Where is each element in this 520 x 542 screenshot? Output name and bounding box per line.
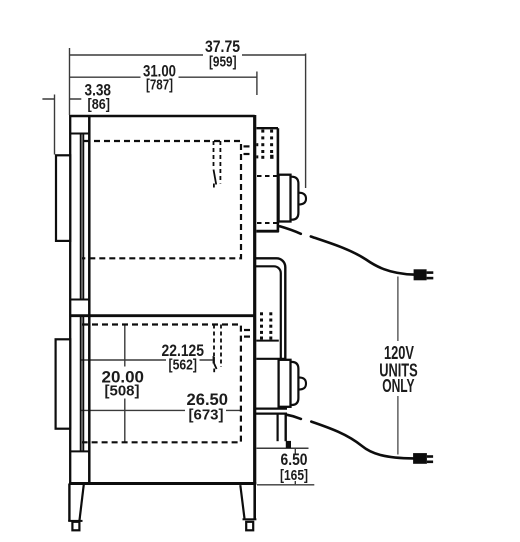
svg-text:[86]: [86] (88, 97, 111, 113)
svg-text:[508]: [508] (105, 384, 140, 400)
svg-text:[673]: [673] (189, 408, 224, 424)
svg-text:37.75: 37.75 (205, 37, 240, 56)
svg-text:[787]: [787] (146, 78, 173, 94)
svg-text:26.50: 26.50 (187, 390, 229, 409)
svg-text:[959]: [959] (209, 54, 237, 70)
svg-text:ONLY: ONLY (382, 375, 415, 396)
svg-text:[165]: [165] (280, 468, 308, 484)
svg-text:6.50: 6.50 (281, 450, 308, 469)
svg-text:[562]: [562] (169, 358, 198, 374)
